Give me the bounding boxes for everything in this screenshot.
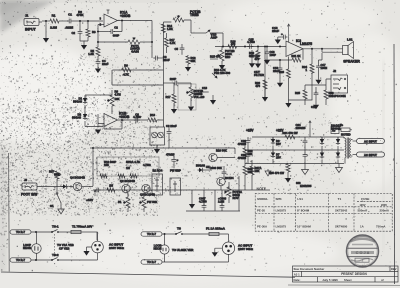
resistor R5 1.8K: [88, 42, 100, 56]
connector: [141, 260, 162, 264]
capacitor C13 680P: [191, 86, 209, 94]
connector: [141, 232, 176, 236]
svg-text:1.8K: 1.8K: [88, 52, 94, 56]
connector lozenge: [353, 152, 385, 157]
indicator box: [150, 127, 165, 145]
ground big: [302, 164, 309, 175]
diode D2 IN4148: [72, 113, 87, 121]
svg-text:T1: T1: [338, 197, 342, 201]
svg-text:4.7M: 4.7M: [115, 93, 122, 97]
svg-text:VOL+20: VOL+20: [194, 95, 205, 99]
svg-text:T1 750mA 26V: T1 750mA 26V: [72, 225, 92, 229]
resistor R19 56K: [249, 47, 260, 64]
zener D7 15V: [271, 150, 281, 164]
resistor R on channel: [107, 184, 115, 193]
wire: [186, 176, 240, 211]
wire: [80, 35, 88, 45]
ganged switch link: [54, 234, 56, 257]
svg-text:NOTE: NOTE: [257, 187, 267, 191]
svg-text:1.5K: 1.5K: [167, 27, 173, 31]
svg-text:C O J A: C O J A: [356, 251, 370, 255]
wire: [319, 53, 323, 60]
headphone jack: [331, 75, 348, 98]
svg-text:+20DB: +20DB: [120, 14, 131, 18]
svg-text:10" 8OHM: 10" 8OHM: [297, 224, 311, 228]
svg-text:15V: 15V: [276, 142, 281, 146]
svg-text:10K: 10K: [104, 163, 109, 167]
switch S1: [50, 187, 61, 210]
wire: [217, 148, 235, 190]
bridge diode D11: [336, 150, 340, 164]
wire: [264, 46, 265, 100]
switch TS-1: [51, 225, 71, 233]
ground chassis: [336, 164, 343, 173]
svg-text:AMP: AMP: [211, 36, 218, 40]
svg-text:120V 60Hz: 120V 60Hz: [238, 247, 253, 251]
border left: [8, 153, 11, 272]
bridge diode D9: [336, 137, 340, 150]
fuse T1 750mA: [71, 225, 97, 234]
LED D4: [158, 132, 164, 138]
svg-text:IN4148: IN4148: [196, 164, 205, 168]
capacitor C15: [247, 38, 255, 49]
svg-text:R34 470 1W: R34 470 1W: [282, 131, 298, 135]
diode D1 IN4148: [73, 97, 87, 105]
wire: [85, 95, 112, 98]
wire: [118, 20, 153, 21]
transistor Q6: [70, 176, 85, 191]
wire: [112, 58, 163, 85]
resistor R8 pot: [107, 90, 121, 115]
capacitor C17: [316, 60, 327, 80]
zener D6 15V: [271, 137, 281, 150]
svg-text:J2: J2: [333, 69, 337, 73]
resistor R30 10K: [243, 157, 253, 190]
wire: [45, 20, 103, 21]
wire: [162, 254, 229, 262]
svg-text:+20DB: +20DB: [119, 115, 130, 119]
svg-text:PW 5/2P: PW 5/2P: [170, 169, 181, 173]
ground: [219, 65, 225, 70]
wire rail bottom: [245, 163, 344, 165]
ground: [43, 38, 49, 43]
svg-text:PESENT DESIGN: PESENT DESIGN: [341, 272, 367, 276]
resistor R16 68K: [186, 55, 196, 67]
ground: [275, 40, 281, 45]
potentiometer POT1: [128, 37, 153, 53]
svg-text:68K: 68K: [191, 59, 196, 63]
label IN4148: [206, 165, 210, 169]
capacitor C on channel: [95, 188, 101, 193]
svg-text:SPRA 4.7K: SPRA 4.7K: [126, 160, 140, 164]
capacitor C16 100P: [265, 47, 276, 60]
capacitor C22 470/25: [238, 137, 251, 150]
svg-text:TO ULSEK VER: TO ULSEK VER: [172, 248, 194, 252]
wire: [97, 21, 152, 43]
wire: [157, 120, 163, 149]
svg-text:100N: 100N: [321, 66, 328, 70]
svg-text:470K: 470K: [76, 13, 84, 17]
capacitor C3 22uF: [153, 55, 170, 62]
resistor R2 470K: [76, 10, 84, 17]
svg-text:10K: 10K: [115, 97, 120, 101]
svg-text:F1 1A 315mA: F1 1A 315mA: [206, 227, 226, 231]
svg-text:.022M: .022M: [65, 26, 74, 30]
svg-text:MODEL: MODEL: [257, 197, 268, 201]
label AC INPUT 240V: [109, 242, 124, 250]
AC socket 240V: [92, 232, 104, 253]
svg-text:SKT2842: SKT2842: [335, 209, 348, 213]
wire: [215, 46, 286, 47]
svg-text:PE-20: PE-20: [257, 209, 265, 213]
potentiometer POT3B: [217, 47, 235, 66]
wire: [97, 114, 99, 128]
svg-text:10K: 10K: [255, 169, 260, 173]
svg-text:Ts: Ts: [340, 123, 343, 127]
capacitor C18: [273, 59, 282, 79]
capacitor C14 470: [250, 50, 260, 63]
resistor R29 10K: [243, 140, 253, 157]
svg-text:2.2M: 2.2M: [218, 200, 225, 204]
diode D IN4148: [196, 164, 212, 173]
capacitor C1: [65, 13, 74, 30]
bridge diode D8: [320, 137, 324, 150]
svg-text:4.7/63: 4.7/63: [247, 40, 255, 44]
svg-text:100P: 100P: [270, 53, 277, 57]
svg-text:As: As: [332, 129, 336, 133]
capacitor C13 22uF: [272, 26, 287, 40]
svg-text:TS-1: TS-1: [52, 225, 59, 229]
svg-text:SPK: SPK: [276, 197, 283, 201]
svg-text:8" 8OHM: 8" 8OHM: [297, 209, 310, 213]
ground: [265, 169, 271, 176]
svg-text:S1: S1: [50, 204, 54, 208]
capacitor C5 220P: [163, 77, 191, 85]
wire: [84, 105, 86, 114]
label +15V: [86, 190, 96, 202]
wire: [46, 178, 51, 187]
connector lozenge AC INPUT: [353, 139, 385, 144]
svg-text:Q4 BC184B: Q4 BC184B: [70, 176, 85, 180]
svg-text:FUSE: FUSE: [361, 197, 369, 201]
speaker LS1: [343, 38, 361, 64]
neon LOOP 2: [154, 233, 170, 262]
resistor R3: [86, 21, 96, 37]
wire: [118, 119, 149, 120]
svg-text:22uF: 22uF: [272, 29, 279, 33]
svg-text:LM1875: LM1875: [276, 209, 287, 213]
title block: [293, 266, 399, 282]
wire power rail: [287, 24, 290, 42]
bottom scan edge: [288, 284, 400, 286]
svg-text:56K: 56K: [249, 54, 254, 58]
border bottom: [1, 272, 295, 277]
ground: [313, 105, 319, 110]
label AC INPUT 120V: [238, 244, 253, 252]
svg-text:220P: 220P: [170, 77, 177, 81]
svg-text:Sheet: Sheet: [344, 278, 352, 282]
resistor R27A 10K: [250, 160, 262, 190]
capacitor C8: [133, 113, 141, 123]
wire rail top: [252, 136, 344, 138]
ground open: [58, 209, 65, 214]
reverb box: [97, 157, 159, 178]
ground: [185, 67, 191, 72]
resistor R22 470: [255, 80, 267, 89]
svg-text:+15V: +15V: [246, 129, 254, 133]
wire feedback: [104, 120, 122, 129]
border right: [393, 44, 396, 284]
svg-text:TO R-7: TO R-7: [16, 258, 25, 262]
resistor R17 4.7K: [165, 33, 176, 53]
svg-text:R17: R17: [165, 95, 171, 99]
capacitor C009 56K: [210, 166, 227, 180]
wire: [42, 20, 50, 22]
resistor R24 1: [302, 49, 314, 100]
svg-text:FOOT S/W: FOOT S/W: [21, 193, 38, 197]
capacitor C008 22uF: [218, 190, 227, 211]
svg-text:R23: R23: [279, 70, 285, 74]
feedback capacitor C2 680P: [97, 21, 122, 38]
svg-text:22AF: 22AF: [163, 58, 170, 62]
svg-text:4.7K: 4.7K: [123, 73, 129, 77]
ground: [154, 149, 160, 154]
label J2: [333, 69, 337, 73]
svg-text:OF V1B: OF V1B: [59, 247, 69, 251]
svg-text:IN4148: IN4148: [73, 100, 82, 104]
wire: [45, 21, 47, 38]
resistor R14 1.5K: [161, 24, 172, 32]
transformer T1: [344, 138, 353, 164]
svg-text:AC INPUT: AC INPUT: [364, 139, 377, 143]
svg-text:of: of: [381, 278, 384, 282]
svg-text:LS1: LS1: [347, 38, 353, 42]
ground: [189, 190, 195, 209]
op-amp IC1A: [100, 10, 131, 27]
capacitor C19: [311, 87, 318, 109]
trimmer PB2: [212, 68, 231, 78]
label As NOTED: [341, 133, 351, 137]
ground: [249, 63, 255, 68]
op-amp IC3 LM1875: [286, 39, 312, 57]
resistors R25 R26: [295, 85, 334, 105]
wire: [90, 147, 235, 186]
resistor R35 470 1W: [269, 164, 290, 179]
wire: [98, 25, 104, 43]
svg-text:J3: J3: [24, 178, 28, 182]
svg-text:NEON: NEON: [154, 247, 162, 251]
ground: [262, 89, 268, 102]
capacitor C007 4.7/50: [199, 190, 207, 211]
svg-text:4.7/50: 4.7/50: [199, 200, 207, 204]
potentiometer POT4: [118, 193, 130, 212]
switch TS-2: [51, 253, 59, 261]
svg-text:SPEAKER: SPEAKER: [343, 59, 360, 63]
svg-text:C2: C2: [114, 26, 118, 30]
wire: [191, 32, 206, 34]
svg-text:R6: R6: [124, 64, 128, 68]
svg-text:P1: P1: [118, 200, 122, 204]
svg-text:C9 22uF: C9 22uF: [166, 124, 177, 128]
relay box B2: [170, 169, 181, 196]
wire vertical rail: [163, 22, 171, 58]
svg-text:C1: C1: [68, 13, 72, 17]
feedback resistor R21: [265, 49, 303, 62]
svg-text:TO R-7: TO R-7: [16, 230, 25, 234]
svg-text:J1: J1: [25, 14, 29, 18]
svg-text:AC INPUT: AC INPUT: [364, 153, 377, 157]
ground: [277, 80, 283, 88]
fuse F2: [338, 123, 352, 132]
svg-text:120V: 120V: [359, 203, 365, 207]
ground: [285, 178, 291, 183]
svg-text:Q2 BC184B: Q2 BC184B: [120, 179, 135, 183]
svg-text:NOTED: NOTED: [341, 133, 351, 137]
svg-text:C5: C5: [174, 47, 178, 51]
svg-text:INPUT: INPUT: [25, 28, 37, 32]
capacitor C2 680P: [71, 21, 82, 35]
label +22V arrow: [309, 121, 311, 137]
resistor R18 470: [228, 40, 237, 49]
svg-text:SKT4800: SKT4800: [335, 224, 348, 228]
wire: [96, 232, 98, 240]
svg-text:PE-30A: PE-30A: [257, 224, 268, 228]
wire: [343, 137, 345, 164]
svg-text:TO R-7: TO R-7: [147, 260, 156, 264]
svg-text:680P: 680P: [113, 34, 120, 38]
ground: [210, 95, 216, 105]
wire: [210, 33, 223, 47]
svg-text:R1: R1: [52, 14, 56, 18]
ground: [81, 45, 87, 50]
svg-text:EDRV/35: EDRV/35: [300, 184, 312, 188]
svg-text:4.7K: 4.7K: [170, 41, 176, 45]
wire: [59, 20, 68, 22]
svg-text:Q3 BC184B: Q3 BC184B: [140, 193, 155, 197]
bridge diode D10: [320, 150, 324, 164]
wire vertical rail: [162, 70, 164, 120]
capacitor C24 2200/25: [296, 123, 308, 150]
LED D3: [152, 132, 158, 138]
svg-text:500mA: 500mA: [358, 209, 368, 213]
svg-text:2.2M: 2.2M: [50, 26, 57, 30]
connector TO R-7: [10, 230, 52, 234]
foot switch jack: [21, 178, 40, 197]
ground: [95, 130, 101, 135]
approval stamp: [347, 235, 379, 267]
svg-text:R3: R3: [92, 30, 96, 34]
svg-text:R21 1K: R21 1K: [291, 54, 300, 58]
resistor R17b: [165, 83, 176, 109]
svg-text:4.7/50: 4.7/50: [143, 163, 151, 167]
input jack J1: [24, 14, 42, 32]
svg-text:LS1: LS1: [297, 197, 303, 201]
wire: [82, 186, 93, 188]
neon LOOP: [23, 231, 41, 260]
svg-text:GAIN: GAIN: [131, 49, 139, 53]
svg-text:PW 50K: PW 50K: [147, 200, 157, 204]
label CUT FILTER: [254, 70, 265, 77]
potentiometer POT2B TREB: [173, 10, 201, 33]
pot V1B AMP: [206, 30, 217, 40]
transistor Q5: [217, 176, 234, 186]
svg-text:250mA: 250mA: [380, 209, 390, 213]
capacitor C23 470/25: [238, 150, 251, 164]
label TO V1A: [57, 243, 74, 251]
ground: [171, 109, 177, 114]
ground: [83, 247, 91, 256]
svg-text:RCV: RCV: [233, 196, 239, 200]
resistor R37 10K: [49, 170, 61, 187]
transistor Q3: [140, 184, 155, 196]
svg-text:TS-2: TS-2: [52, 253, 59, 257]
capacitor C5: [174, 44, 184, 55]
label D8-D11 IN4004: [331, 124, 341, 131]
connector TO R-8: [10, 258, 52, 262]
svg-text:240V 50Hz: 240V 50Hz: [109, 246, 124, 250]
potentiometer POT9A RCV: [224, 182, 243, 203]
svg-text:TREB: TREB: [190, 13, 199, 17]
resistor R13: [148, 113, 163, 122]
label 630 EDR: [296, 181, 312, 188]
svg-text:PB2 100-500: PB2 100-500: [214, 71, 231, 75]
svg-text:LM1875: LM1875: [276, 224, 287, 228]
svg-text:4.7/50: 4.7/50: [133, 115, 141, 119]
wire: [40, 186, 57, 188]
capacitor C25 2200/35: [303, 150, 308, 164]
ground: [188, 107, 194, 112]
op-amp IC1B: [98, 112, 130, 127]
transistor Q4: [209, 149, 227, 162]
transistor Q2: [120, 179, 135, 193]
svg-text:MID: MID: [225, 55, 230, 59]
capacitor C4 22uF: [96, 56, 109, 68]
svg-text:UF: UF: [206, 165, 210, 169]
wire: [85, 121, 103, 127]
svg-text:Date:: Date:: [294, 278, 301, 282]
wire: [93, 189, 270, 191]
svg-text:R23 56K: R23 56K: [216, 149, 227, 153]
svg-text:15V: 15V: [276, 156, 281, 160]
resistor R15 470: [210, 55, 221, 60]
label TO ULSEK VER: [172, 248, 194, 252]
ground: [95, 69, 101, 74]
svg-text:NEON: NEON: [23, 246, 31, 250]
svg-text:IN4148: IN4148: [72, 116, 81, 120]
svg-text:C2: C2: [71, 31, 75, 35]
resistor R34 470 1W: [282, 131, 298, 139]
svg-text:A3 1: A3 1: [294, 272, 300, 276]
capacitor C21 470/25: [166, 153, 179, 169]
svg-text:BC184: BC184: [225, 176, 234, 180]
svg-text:C009 56K: C009 56K: [210, 166, 222, 170]
fuse F1: [206, 227, 229, 243]
svg-text:C13: C13: [202, 86, 208, 90]
svg-text:230V: 230V: [381, 203, 387, 207]
svg-text:+: +: [281, 32, 283, 36]
svg-text:R13: R13: [150, 113, 156, 117]
wire: [322, 49, 343, 52]
capacitor C9 22uF: [166, 124, 177, 148]
svg-text:470/25: 470/25: [166, 153, 175, 157]
svg-text:FILTER: FILTER: [254, 73, 265, 77]
relay box B1: [152, 169, 163, 196]
AC socket 120V: [222, 242, 234, 254]
svg-text:470: 470: [255, 84, 260, 88]
ground: [315, 80, 321, 85]
svg-text:22uF: 22uF: [102, 62, 109, 66]
potentiometer POT1B: [178, 83, 205, 110]
